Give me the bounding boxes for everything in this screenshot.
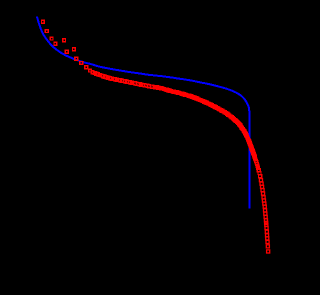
red data series: scattered head markers bbox=[42, 20, 78, 60]
red data series: separated markers down the steep tail bbox=[259, 179, 269, 253]
red data series: dense marker chain along the S-curve bbox=[93, 71, 262, 177]
blue model curve bbox=[37, 17, 250, 209]
red data series: separated markers entering the chain bbox=[80, 62, 94, 74]
